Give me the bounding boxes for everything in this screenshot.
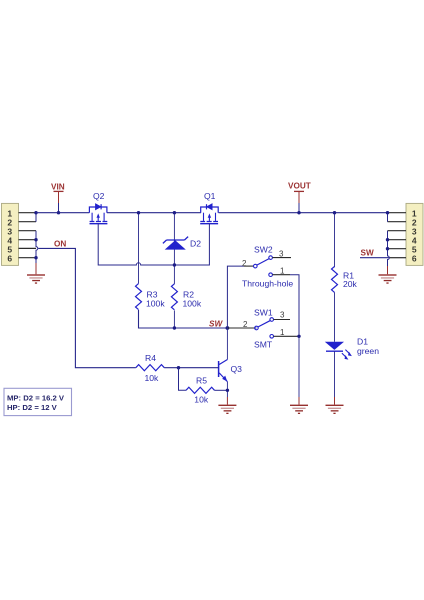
svg-text:MP: D2 = 16.2 V: MP: D2 = 16.2 V: [7, 393, 65, 402]
svg-text:green: green: [357, 346, 379, 356]
junction JP2 pin1: [386, 211, 389, 214]
svg-text:1: 1: [280, 266, 285, 275]
svg-text:VIN: VIN: [51, 183, 65, 192]
svg-text:2: 2: [242, 259, 247, 268]
junction VIN: [57, 211, 60, 214]
ground under JP2: [379, 266, 397, 284]
svg-text:Through-hole: Through-hole: [242, 278, 293, 288]
junction SW node: [226, 326, 230, 330]
svg-text:R5: R5: [196, 376, 207, 386]
junction D2 top: [173, 211, 176, 214]
svg-text:10k: 10k: [145, 373, 160, 383]
svg-text:D1: D1: [357, 337, 368, 347]
junction D2 bottom / rail: [173, 263, 176, 266]
switch SW2: [244, 256, 291, 277]
junction JP1 pin6: [34, 256, 37, 259]
ground under D1: [326, 397, 344, 414]
wire Q1 to JP2 (VOUT rail): [219, 212, 388, 214]
diode D1 (green LED): [325, 342, 352, 360]
wire R5 loop: [179, 368, 187, 391]
junction JP1 pin1: [34, 211, 37, 214]
JP1 pin 3 stub: [19, 230, 37, 232]
power flag VIN: [51, 183, 65, 213]
junction JP1 pin4: [34, 238, 37, 241]
JP2 pin 1 stub: [388, 212, 407, 214]
wire ON net from pin5: [38, 248, 136, 367]
wire JP2 pin3-4-5 to ground with hop over pin6: [388, 231, 390, 266]
svg-text:SW: SW: [361, 248, 374, 257]
svg-text:2: 2: [243, 320, 248, 329]
junction R3 top: [137, 211, 140, 214]
wire Q3 emitter down: [226, 382, 228, 397]
svg-text:R4: R4: [145, 353, 156, 363]
junction JP2 pin5: [386, 247, 389, 250]
JP1 pin 6 stub: [19, 257, 37, 259]
junction emitter / R5: [226, 389, 229, 392]
transistor Q1 (P-MOSFET mirrored): [200, 204, 218, 224]
resistor R4: [136, 365, 165, 371]
junction R1 top: [333, 211, 336, 214]
junction JP2 pin4: [386, 238, 389, 241]
svg-text:SW: SW: [209, 319, 223, 328]
svg-text:100k: 100k: [183, 298, 202, 308]
JP1 pin 1 stub: [19, 212, 37, 214]
wire R3 column (VIN to R3): [138, 213, 140, 284]
wire D2 column (VIN to D2 to rail to R2): [173, 213, 175, 284]
junction R4 / R5: [177, 366, 180, 369]
wire R4 to Q3 base: [164, 367, 218, 369]
resistor R2: [171, 284, 177, 310]
connector JP2 (right 6-pin header): [406, 203, 423, 265]
svg-text:20k: 20k: [343, 279, 358, 289]
connector JP1 (left 6-pin header): [2, 203, 19, 265]
wire SW2 pin1 to bus: [290, 275, 299, 337]
JP2 pin 3 stub: [388, 230, 407, 232]
svg-text:6: 6: [412, 253, 417, 263]
JP1 pin 2 stub: [19, 221, 37, 223]
svg-text:1: 1: [280, 328, 285, 337]
wire R1 to D1: [334, 292, 336, 341]
JP1 pin 5 stub: [19, 247, 37, 249]
junction SW1 pin1 / bus: [297, 335, 300, 338]
wire pin1-pin2 bridge: [35, 213, 37, 222]
JP2 pin 6 stub: [390, 257, 406, 259]
transistor Q2 (P-MOSFET with body diode): [89, 204, 107, 224]
wire R1 column top: [334, 213, 336, 268]
JP2 pin 4 stub: [388, 239, 407, 241]
wire pin3-pin4-pin6 with hop over pin5: [36, 231, 38, 258]
JP2 pin 2 stub: [388, 221, 407, 223]
JP2 pin 5 stub: [388, 248, 407, 250]
ground under JP1: [27, 258, 45, 284]
wire R2 bottom: [173, 310, 175, 328]
power flag VOUT: [288, 182, 311, 213]
resistor R3: [136, 284, 142, 310]
wire Q2 to Q1: [107, 212, 201, 214]
wire R5 to emitter: [215, 389, 228, 391]
svg-text:3: 3: [279, 249, 284, 258]
resistor R5: [186, 387, 215, 393]
JP1 pin 4 stub: [19, 239, 37, 241]
svg-text:100k: 100k: [146, 298, 165, 308]
svg-text:D2: D2: [190, 238, 201, 248]
svg-text:SMT: SMT: [254, 339, 273, 349]
svg-text:6: 6: [7, 253, 12, 263]
wire R3 bottom to SW line: [139, 310, 257, 328]
transistor Q3 (NPN): [219, 360, 228, 382]
wire D1 to ground: [334, 351, 336, 397]
junction VOUT: [297, 211, 300, 214]
switch SW1: [227, 318, 299, 338]
svg-text:VOUT: VOUT: [288, 182, 311, 191]
svg-text:SW2: SW2: [254, 244, 273, 254]
svg-text:Q2: Q2: [93, 191, 105, 201]
svg-text:SW1: SW1: [254, 308, 273, 318]
junction R2 / SW line: [173, 326, 176, 329]
wire bus to ground: [298, 336, 300, 397]
wire SW stub to JP2 pin6: [360, 257, 390, 259]
wire gate rail Q2-Q1 with hop over R3 column: [98, 224, 209, 265]
wire SW2 branch: [227, 266, 244, 328]
wire SW node to Q3 collector: [226, 328, 228, 360]
svg-text:Q1: Q1: [204, 191, 216, 201]
note box MP/HP D2 values: [4, 388, 72, 415]
ground under Q3: [218, 397, 236, 414]
wire VIN rail: [36, 212, 89, 214]
resistor R1: [332, 266, 338, 292]
svg-text:3: 3: [280, 310, 285, 319]
svg-text:Q3: Q3: [231, 364, 243, 374]
svg-text:ON: ON: [54, 239, 66, 248]
svg-text:HP: D2 = 12 V: HP: D2 = 12 V: [7, 403, 58, 412]
svg-text:10k: 10k: [194, 394, 209, 404]
diode D2 (zener): [163, 237, 188, 250]
wire JP2 pin1-pin2 bridge: [387, 213, 389, 222]
ground under switch bus: [290, 397, 308, 414]
